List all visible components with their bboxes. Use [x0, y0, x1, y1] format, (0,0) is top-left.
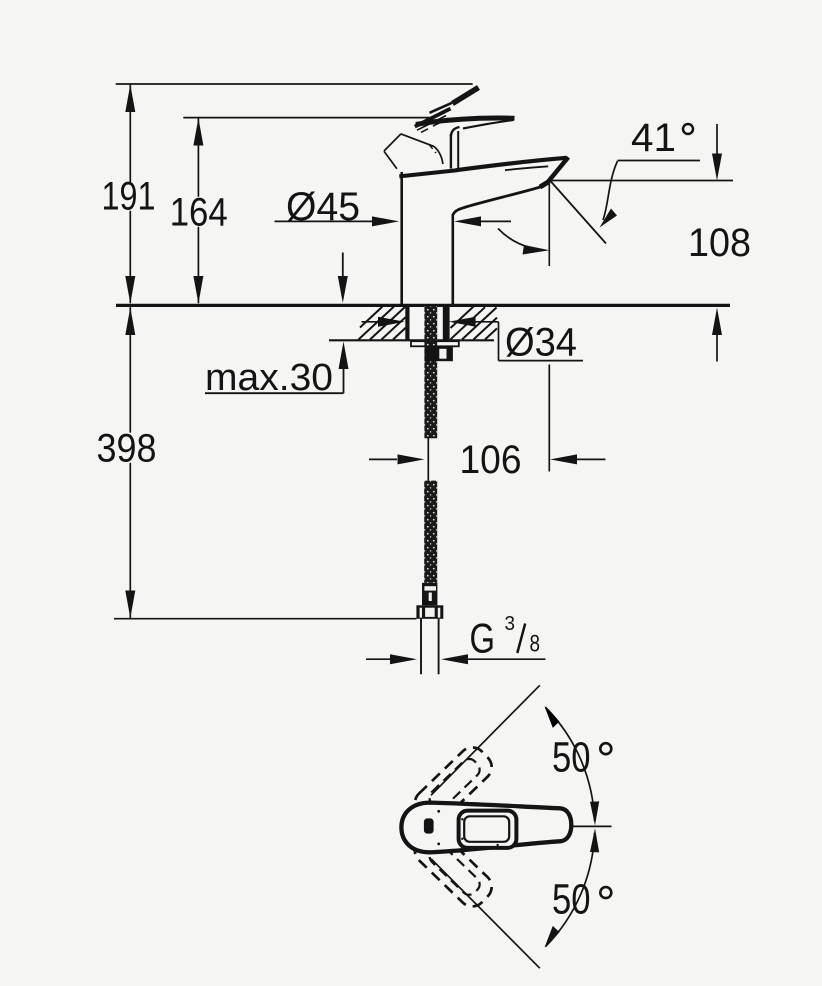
arrow 164 up: [193, 118, 203, 146]
cartridge blob: [424, 818, 434, 833]
lever underside: [463, 120, 513, 129]
counter hatch right: [451, 307, 498, 340]
svg-text:G: G: [470, 615, 496, 662]
41deg leader curve: [603, 161, 618, 220]
spout mouth inner line: [505, 166, 548, 170]
svg-text:164: 164: [170, 191, 228, 235]
adapter block: [422, 583, 437, 605]
arrow 398 down: [125, 591, 135, 619]
dimension G3/8: [366, 658, 546, 660]
dimension 191 line: [129, 84, 131, 303]
faucet body right edge: [451, 214, 454, 305]
svg-text:Ø45: Ø45: [286, 185, 360, 229]
mounting nut upper: [425, 346, 453, 361]
small dots: [437, 810, 440, 813]
dimension 164 line: [197, 118, 199, 303]
spout tip face: [549, 157, 569, 181]
hose break thin line: [427, 438, 429, 481]
max.30 top arrow: [342, 253, 344, 277]
threaded hose upper: [424, 306, 437, 438]
spout mouth wedge: [540, 182, 549, 188]
arrow 191 up: [125, 85, 135, 113]
svg-text:max.30: max.30: [205, 357, 333, 399]
dimension 108: [552, 124, 734, 362]
dashed handle lower: [409, 825, 497, 912]
svg-text:398: 398: [97, 427, 157, 471]
top view: ray lower: [431, 859, 540, 969]
raised lever lower stroke double: [417, 116, 446, 131]
lever plate inner: [464, 816, 509, 842]
top view: ray upper: [431, 685, 540, 795]
wire reference line 164 top: [184, 117, 430, 119]
max.30 leader: [205, 360, 344, 393]
arrow 398 up: [125, 308, 135, 336]
raised lever lower stroke: [415, 109, 451, 127]
raised lever tip stroke: [453, 88, 479, 104]
connection nut: [416, 605, 443, 619]
arrow 164 down: [193, 276, 203, 304]
shank right wall: [443, 306, 450, 340]
raised lever silhouette dash: [429, 144, 436, 153]
washer under counter: [411, 341, 459, 346]
lever top edge: [416, 118, 515, 125]
398 bottom reference line: [114, 618, 416, 620]
svg-text:3: 3: [505, 613, 516, 635]
spout angle diagonal: [550, 181, 606, 244]
counter hatch left: [359, 307, 406, 340]
svg-text:50: 50: [552, 734, 591, 782]
spout bottom edge: [453, 187, 540, 215]
svg-text:191: 191: [102, 175, 156, 219]
dashed handle upper: [409, 742, 497, 829]
shank left wall: [405, 306, 409, 340]
countertop line: [116, 304, 730, 307]
svg-text:50: 50: [552, 876, 591, 924]
raised lever mid stroke: [430, 103, 453, 113]
faucet body left edge: [400, 172, 403, 305]
lever plate outer: [459, 811, 517, 848]
svg-text:8: 8: [530, 631, 541, 658]
threaded hose 2: [424, 481, 437, 583]
wire reference line 191 top: [116, 83, 472, 85]
svg-text:41: 41: [631, 116, 676, 160]
dimension D34 arrows: [362, 322, 584, 361]
svg-text:106: 106: [460, 438, 522, 482]
counter underside line: [329, 339, 494, 341]
raised lever dashes: [421, 118, 449, 132]
dimension 398 line: [129, 308, 131, 618]
angle arc upper 50: [545, 707, 594, 821]
spout tip vertical line: [548, 180, 550, 266]
lever stem left: [450, 134, 452, 169]
lever stem right: [457, 131, 459, 169]
arrow 191 down: [125, 276, 135, 304]
dimension D45: [275, 220, 512, 222]
41deg underline: [618, 160, 701, 162]
angle arc 41: [498, 229, 544, 251]
angle arc lower 50: [545, 833, 594, 947]
faucet top view body: [401, 803, 571, 853]
spout top edge: [456, 158, 567, 170]
faucet body top edge: [399, 170, 457, 176]
connection pipe: [421, 619, 439, 674]
svg-text:108: 108: [688, 221, 751, 265]
dimension 106: [369, 365, 606, 472]
axis line: [569, 825, 612, 827]
svg-text:Ø34: Ø34: [505, 321, 577, 365]
lever stem corner: [451, 127, 460, 136]
raised lever silhouette lines: [384, 134, 443, 169]
